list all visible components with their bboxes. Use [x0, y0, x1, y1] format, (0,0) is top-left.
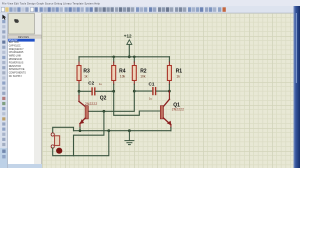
wire button bottom loop to rail — [53, 131, 109, 156]
svg-text:1k: 1k — [84, 74, 88, 78]
wire C2 to R4 — [96, 90, 114, 92]
overview minimap — [9, 14, 35, 35]
button S1 — [51, 133, 60, 148]
transistor Q1 — [160, 91, 184, 131]
power +12 symbol — [127, 40, 132, 45]
wire R2 to C1 — [134, 90, 152, 92]
node button loop — [107, 129, 110, 132]
svg-text:Q2: Q2 — [100, 95, 107, 101]
svg-text:C1: C1 — [149, 82, 155, 87]
svg-text:DEVICES: DEVICES — [18, 36, 29, 39]
menu bar — [0, 0, 300, 6]
wire C1 to R1 — [156, 90, 169, 92]
svg-text:1u: 1u — [149, 97, 153, 101]
resistor R4 — [112, 57, 126, 92]
node on wire A (button tap) — [103, 110, 106, 113]
wire +12 top rail — [79, 56, 169, 58]
wire A: Q2 base to R2/C1 node — [88, 91, 134, 111]
node R1 bottom / Q1 collector — [168, 90, 171, 93]
node R4 top — [112, 56, 115, 59]
wire base tap to loop — [74, 111, 104, 155]
svg-text:1k: 1k — [176, 74, 180, 78]
wire B: R4/C2 node to Q1 base — [114, 91, 161, 115]
capacitor C1 — [149, 82, 157, 101]
object selector list — [8, 39, 42, 164]
svg-text:2N2222: 2N2222 — [172, 108, 184, 112]
resistor R2 — [132, 57, 147, 91]
svg-text:+12: +12 — [124, 33, 132, 38]
svg-text:C2: C2 — [88, 81, 94, 86]
capacitor C2 — [88, 81, 102, 96]
svg-text:DC SUPPLY: DC SUPPLY — [9, 75, 23, 78]
svg-text:2N2222: 2N2222 — [85, 102, 97, 106]
node R2 bottom — [133, 90, 136, 93]
left icon toolbar — [0, 13, 8, 168]
svg-text:10k: 10k — [140, 74, 146, 78]
resistor R1 — [167, 57, 182, 91]
node R4 bottom — [112, 90, 115, 93]
svg-text:1u: 1u — [99, 82, 103, 86]
red indicator dot — [56, 148, 62, 154]
ground — [125, 131, 134, 145]
node power junction — [128, 55, 131, 58]
node ground tap — [128, 129, 131, 132]
wire power stem — [128, 44, 130, 56]
transistor Q2 — [79, 91, 107, 130]
bottom-left light strip — [8, 164, 42, 168]
node R2 top — [133, 56, 136, 59]
wire bottom rail — [74, 130, 171, 132]
svg-text:10k: 10k — [120, 74, 126, 78]
right window edge / scrollbar — [294, 6, 301, 168]
node Q2 emitter — [79, 129, 82, 132]
left panel background — [8, 13, 42, 168]
wire R3 to C2 — [79, 90, 91, 92]
wire button top to rail — [53, 127, 74, 133]
work area grid background — [41, 13, 294, 168]
node R3 bottom / Q2 collector — [78, 90, 81, 93]
svg-text:File View Edit Tools Design Gr: File View Edit Tools Design Graph Source… — [2, 2, 100, 5]
resistor R3 — [77, 57, 90, 92]
object selector header — [8, 35, 42, 39]
toolbar — [0, 6, 300, 13]
